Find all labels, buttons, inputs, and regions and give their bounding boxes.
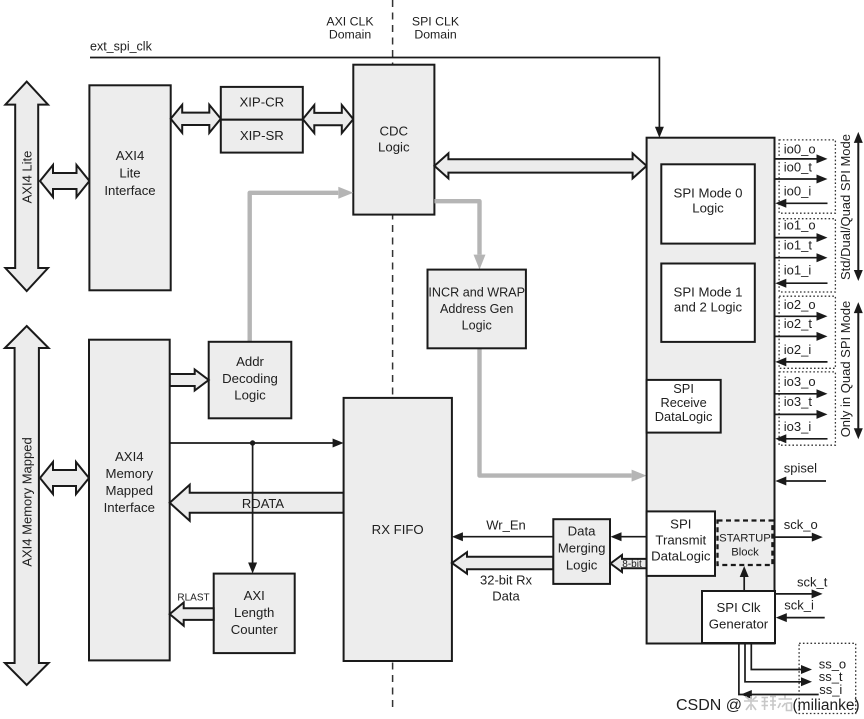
svg-text:io0_o: io0_o [784, 142, 816, 157]
block SPI Clk Generator [702, 591, 775, 643]
signal sck_o [775, 517, 823, 541]
svg-text:io3_i: io3_i [784, 419, 812, 434]
signal io2_i [775, 342, 827, 366]
block AXI4 Lite Interface [89, 85, 170, 290]
svg-text:AXI4 Lite: AXI4 Lite [19, 151, 34, 204]
signal io2_o [775, 297, 828, 321]
signal io1_t [775, 237, 828, 262]
svg-text:Logic: Logic [462, 319, 492, 333]
svg-text:DataLogic: DataLogic [651, 549, 711, 564]
signal ss_t [745, 643, 843, 686]
svg-text:io2_t: io2_t [784, 316, 813, 331]
bus arrow 8-bit (SPI Transmit to Data Merging) [611, 555, 647, 572]
bus arrow Interface to XIP [171, 105, 221, 133]
svg-text:sck_i: sck_i [784, 598, 814, 613]
svg-text:CDC: CDC [380, 123, 409, 138]
signal sck_i [776, 598, 825, 622]
svg-text:XIP-CR: XIP-CR [239, 95, 284, 110]
wire SPI Clk Generator to STARTUP Block [740, 566, 749, 591]
svg-text:sck_o: sck_o [784, 517, 818, 532]
svg-text:SPI Mode 1: SPI Mode 1 [674, 285, 743, 300]
block AXI Length Counter [214, 574, 295, 654]
svg-text:Logic: Logic [378, 139, 410, 154]
svg-text:and 2 Logic: and 2 Logic [674, 300, 743, 315]
svg-text:io2_i: io2_i [784, 342, 812, 357]
svg-text:Only in Quad SPI Mode: Only in Quad SPI Mode [838, 301, 853, 438]
io box io2 (dotted) [779, 296, 835, 368]
svg-text:io1_o: io1_o [784, 217, 816, 232]
block RX FIFO [344, 398, 452, 661]
bus arrow AXI4 Lite (vertical double arrow) [5, 82, 48, 291]
svg-text:io1_i: io1_i [784, 263, 812, 278]
svg-text:io1_t: io1_t [784, 237, 813, 252]
svg-text:Interface: Interface [104, 500, 155, 515]
bus arrow CDC to SPI module [434, 153, 646, 178]
ss box (dotted) [799, 643, 856, 713]
svg-text:AXI: AXI [244, 588, 265, 603]
junction node [250, 440, 255, 445]
block SPI Transmit DataLogic [647, 511, 715, 576]
svg-text:AXI4: AXI4 [116, 148, 145, 163]
signal io0_o [775, 142, 828, 164]
svg-text:Domain: Domain [329, 28, 372, 42]
block Addr Decoding Logic [209, 342, 292, 419]
io box io3 (dotted) [779, 372, 835, 445]
signal io0_t [775, 159, 828, 183]
svg-text:INCR and WRAP: INCR and WRAP [428, 285, 525, 299]
svg-text:SPI CLK: SPI CLK [412, 15, 460, 29]
block STARTUP Block (dashed) [718, 521, 773, 566]
block AXI4 Memory Mapped Interface [89, 340, 170, 661]
gray wire CDC to INCR block [434, 201, 485, 269]
clock domain divider (dashed) [392, 0, 394, 710]
watermark CSDN @milianke [676, 696, 860, 715]
svg-text:32-bit Rx: 32-bit Rx [480, 573, 533, 588]
io box io0 (dotted) [779, 140, 835, 213]
svg-text:io3_t: io3_t [784, 394, 813, 409]
bus arrow MM Interface to Addr Decoding [170, 370, 209, 391]
wire MM Interface to RX FIFO [170, 439, 344, 448]
bus arrow XIP to CDC [303, 105, 354, 133]
svg-text:Logic: Logic [692, 201, 724, 216]
bus arrow AXI4 Lite to Interface [40, 165, 89, 197]
wire SPI Transmit to Data Merging [611, 532, 647, 541]
block Data Merging Logic [553, 519, 610, 584]
svg-text:ss_i: ss_i [819, 682, 842, 697]
wire ext_spi_clk [90, 58, 664, 138]
svg-text:Logic: Logic [566, 558, 598, 573]
svg-text:RDATA: RDATA [242, 496, 284, 511]
svg-text:DataLogic: DataLogic [655, 409, 713, 424]
wire Wr_En (Data Merging to RX FIFO) [452, 518, 553, 542]
svg-text:SPI Clk: SPI Clk [717, 600, 761, 615]
svg-text:Interface: Interface [104, 183, 155, 198]
signal io3_o [775, 374, 828, 398]
block INCR and WRAP Address Gen Logic [428, 270, 526, 349]
svg-text:STARTUP: STARTUP [719, 533, 771, 545]
svg-text:CSDN @: CSDN @ [676, 697, 742, 714]
svg-text:Counter: Counter [231, 622, 279, 637]
svg-text:RX FIFO: RX FIFO [372, 522, 424, 537]
label SPI CLK Domain [412, 15, 460, 42]
svg-text:io3_o: io3_o [784, 374, 816, 389]
block SPI Receive DataLogic [647, 380, 721, 433]
svg-text:SPI: SPI [673, 381, 694, 396]
signal io3_t [775, 394, 828, 419]
svg-text:io2_o: io2_o [784, 297, 816, 312]
svg-text:8-bit: 8-bit [622, 559, 642, 570]
svg-text:AXI4: AXI4 [115, 449, 144, 464]
svg-text:sck_t: sck_t [797, 574, 828, 589]
svg-text:(milianke): (milianke) [793, 697, 860, 714]
svg-text:Domain: Domain [414, 28, 457, 42]
bus arrow RDATA (RX FIFO to MM Interface) [170, 485, 344, 521]
svg-text:io0_t: io0_t [784, 159, 813, 174]
range arrow Std/Dual/Quad SPI Mode [854, 132, 863, 281]
svg-text:Generator: Generator [709, 617, 769, 632]
svg-text:XIP-SR: XIP-SR [240, 128, 284, 143]
svg-text:Receive: Receive [660, 395, 706, 410]
signal io1_o [775, 217, 828, 242]
bus arrow AXI4 Memory Mapped (vertical double arrow) [5, 326, 49, 685]
signal io2_t [775, 316, 828, 341]
svg-text:Wr_En: Wr_En [486, 518, 526, 533]
signal io1_i [775, 263, 827, 288]
svg-text:Transmit: Transmit [655, 533, 706, 548]
gray wire Addr Decoding to CDC [250, 187, 354, 342]
register XIP-SR [221, 120, 303, 153]
wire junction to AXI Length Counter [248, 443, 257, 574]
svg-text:Addr: Addr [236, 354, 264, 369]
svg-text:Block: Block [731, 547, 759, 559]
svg-text:Address Gen: Address Gen [440, 302, 514, 316]
signal ss_o [751, 643, 846, 674]
svg-text:Data: Data [492, 589, 520, 604]
svg-text:Decoding: Decoding [222, 371, 278, 386]
register XIP-CR [221, 87, 303, 120]
svg-text:AXI CLK: AXI CLK [326, 15, 374, 29]
svg-text:SPI: SPI [670, 517, 691, 532]
svg-text:Logic: Logic [234, 388, 266, 403]
svg-text:Merging: Merging [558, 541, 606, 556]
signal io0_i [775, 184, 827, 208]
signal spisel [775, 460, 826, 485]
bus arrow RLAST (AXI Length Counter to MM Interface) [170, 593, 214, 626]
svg-text:ext_spi_clk: ext_spi_clk [90, 40, 153, 54]
block CDC Logic [353, 65, 434, 215]
bus arrow AXI4 MM to MM Interface [40, 462, 89, 494]
label AXI CLK Domain [326, 15, 374, 42]
svg-text:Lite: Lite [119, 166, 140, 181]
svg-text:Mapped: Mapped [105, 483, 153, 498]
block SPI module (SPI CLK domain) [647, 138, 775, 644]
gray wire INCR block to SPI module [480, 348, 647, 481]
range arrow Only in Quad SPI Mode [854, 302, 863, 439]
io box io1 (dotted) [779, 219, 835, 292]
signal sck_t [775, 574, 828, 598]
svg-text:io0_i: io0_i [784, 184, 812, 199]
svg-text:AXI4 Memory Mapped: AXI4 Memory Mapped [19, 437, 34, 566]
svg-text:RLAST: RLAST [177, 593, 209, 604]
svg-text:Memory: Memory [105, 466, 153, 481]
svg-text:SPI Mode 0: SPI Mode 0 [674, 186, 743, 201]
block SPI Mode 0 Logic [661, 164, 755, 243]
svg-text:Std/Dual/Quad SPI Mode: Std/Dual/Quad SPI Mode [838, 134, 853, 280]
svg-text:spisel: spisel [784, 460, 817, 475]
svg-text:Length: Length [234, 605, 274, 620]
block SPI Mode 1 and 2 Logic [661, 264, 755, 342]
bus arrow 32-bit Rx Data (Data Merging to RX FIFO) [452, 552, 553, 603]
signal ss_i [739, 643, 843, 699]
signal io3_i [775, 419, 827, 443]
svg-text:Data: Data [568, 524, 597, 539]
